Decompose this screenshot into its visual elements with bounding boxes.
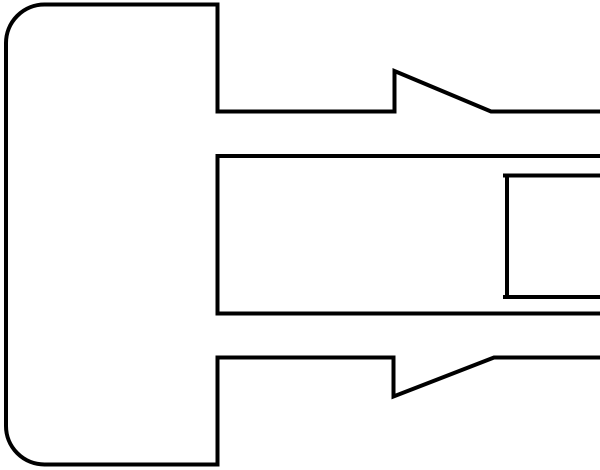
socket left edge <box>505 174 509 300</box>
socket bottom line <box>503 295 600 299</box>
bottom wing with barb <box>218 358 600 397</box>
shank channel <box>218 156 600 314</box>
top wing with barb <box>218 71 600 112</box>
socket top line <box>503 174 600 178</box>
head (left cap body with rounded left corners) <box>6 5 218 465</box>
